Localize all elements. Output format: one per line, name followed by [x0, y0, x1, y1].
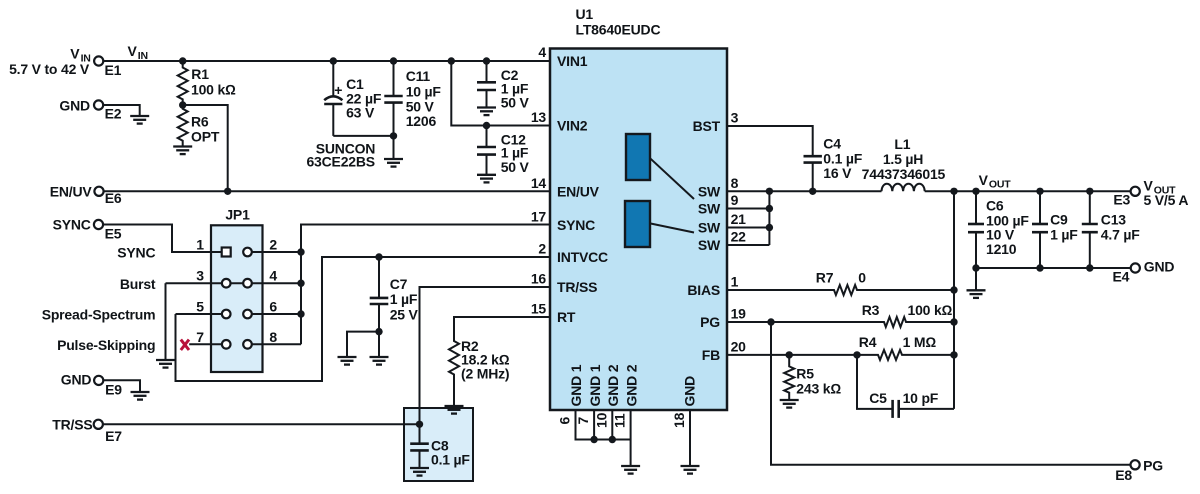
junction dot R4/column: [950, 351, 957, 358]
junction dot FB/R5: [786, 351, 793, 358]
svg-text:9: 9: [731, 192, 739, 208]
svg-text:0.1 µF: 0.1 µF: [823, 151, 862, 167]
svg-text:16: 16: [531, 271, 547, 287]
svg-text:BST: BST: [693, 118, 721, 134]
resistor R5 243k vertical: [784, 355, 841, 400]
svg-text:FB: FB: [702, 347, 720, 363]
svg-text:C4: C4: [823, 135, 841, 151]
junction dot C6 bottom rail: [972, 264, 979, 271]
ground below C8: [410, 468, 429, 476]
svg-text:GND: GND: [59, 98, 90, 114]
U1 internal switch block bottom: [625, 201, 694, 247]
svg-text:RT: RT: [557, 309, 576, 325]
svg-text:100 kΩ: 100 kΩ: [908, 302, 953, 318]
svg-text:SYNC: SYNC: [117, 245, 155, 261]
svg-text:VIN2: VIN2: [557, 118, 588, 134]
svg-text:GND 2: GND 2: [623, 364, 639, 406]
svg-text:5.7 V to 42 V: 5.7 V to 42 V: [9, 61, 90, 77]
svg-text:U1: U1: [576, 6, 594, 22]
wire Spread-Spectrum pin5 to INTVCC U1 pin 2: [176, 257, 551, 381]
U1 bottom pin names GND1 GND1 GND2 GND2 GND rotated: [568, 364, 697, 406]
svg-text:7: 7: [575, 417, 591, 425]
capacitor C11 10uF 50V 1206: [384, 61, 441, 159]
svg-text:SW: SW: [698, 183, 721, 199]
svg-text:10: 10: [593, 412, 609, 428]
svg-text:18: 18: [671, 412, 687, 428]
svg-text:E8: E8: [1115, 467, 1132, 483]
U1 right pin numbers: [731, 110, 747, 355]
svg-text:2: 2: [538, 241, 546, 257]
wire U1 pin 18 GND: [689, 410, 691, 466]
JP1 pin 5: [176, 310, 231, 319]
svg-text:1210: 1210: [986, 241, 1017, 257]
svg-text:L1: L1: [894, 136, 910, 152]
wire E9 to ground: [103, 380, 140, 392]
svg-text:1: 1: [196, 237, 204, 253]
no-connect X mark: [181, 340, 189, 350]
junction dot R3/column: [950, 318, 957, 325]
svg-text:EN/UV: EN/UV: [50, 183, 93, 199]
svg-text:0.1 µF: 0.1 µF: [431, 451, 470, 467]
svg-text:JP1: JP1: [225, 207, 250, 223]
svg-text:50 V: 50 V: [501, 159, 530, 175]
svg-text:SYNC: SYNC: [53, 216, 91, 232]
junction dot bus row2: [297, 280, 304, 287]
svg-text:R5: R5: [796, 366, 814, 382]
junction dot VIN/R1: [179, 57, 186, 64]
svg-text:C7: C7: [390, 276, 408, 292]
svg-text:E7: E7: [105, 428, 122, 444]
svg-text:1.5 µH: 1.5 µH: [883, 151, 923, 167]
svg-text:OUT: OUT: [989, 179, 1011, 191]
svg-text:10 µF: 10 µF: [406, 83, 442, 99]
terminal E3 VOUT: [1113, 178, 1188, 209]
svg-text:VIN1: VIN1: [557, 53, 588, 69]
wire output ground rail to E4: [976, 267, 1131, 269]
ground below R6: [173, 147, 192, 155]
svg-text:3: 3: [731, 110, 739, 126]
junction dot FB/R4/C5: [853, 351, 860, 358]
svg-text:1: 1: [731, 274, 739, 290]
junction dot pin10: [609, 436, 616, 443]
svg-text:C6: C6: [986, 198, 1004, 214]
svg-text:LT8640EUDC: LT8640EUDC: [576, 22, 661, 38]
capacitor C6 100uF 10V 1210: [968, 191, 1029, 290]
svg-text:TR/SS: TR/SS: [557, 279, 597, 295]
ground at E9: [131, 392, 150, 400]
svg-text:16 V: 16 V: [823, 165, 852, 181]
resistor R4 1M on FB: [727, 334, 954, 360]
inductor L1 1.5uH 74437346015: [862, 136, 946, 191]
svg-text:10 pF: 10 pF: [903, 390, 939, 406]
svg-text:1 MΩ: 1 MΩ: [903, 334, 937, 350]
junction dot C11 top: [390, 57, 397, 64]
wire C1 bottom to C11 bottom: [333, 135, 393, 137]
svg-text:PG: PG: [1143, 457, 1163, 473]
junction dot TR/SS C8: [416, 421, 423, 428]
connector JP1 body: [211, 207, 263, 373]
junction dot C12: [483, 122, 490, 129]
svg-text:C13: C13: [1101, 212, 1126, 228]
wire TR/SS: E7 to C8 node to U1 pin 16: [103, 287, 550, 424]
svg-text:17: 17: [531, 209, 547, 225]
junction dot C13 top: [1086, 188, 1093, 195]
ground below Burst: [156, 360, 175, 368]
svg-text:6: 6: [557, 417, 573, 425]
ground below R5: [780, 400, 799, 408]
U1 bottom pin numbers 6 7 10 11 18 rotated: [557, 412, 688, 428]
wire VIN to U1 pin 13 VIN2: [451, 61, 550, 126]
svg-text:E5: E5: [105, 226, 122, 242]
wire SW bus vertical: [768, 191, 770, 245]
svg-text:GND: GND: [1144, 259, 1175, 275]
JP1 row labels: [42, 245, 156, 353]
U1 right pin names: [687, 118, 721, 363]
ground below GND1/GND2 pins: [621, 466, 640, 474]
terminal E4 GND: [1113, 259, 1175, 285]
svg-text:Pulse-Skipping: Pulse-Skipping: [57, 337, 155, 353]
svg-text:14: 14: [531, 175, 547, 191]
U1 bottom ground pins 6 7 10 11: [576, 410, 631, 466]
svg-text:1 µF: 1 µF: [390, 291, 418, 307]
svg-text:SW: SW: [698, 201, 721, 217]
svg-text:Burst: Burst: [120, 276, 156, 292]
wire C7 bottom to left ground: [347, 332, 379, 357]
svg-text:50 V: 50 V: [501, 94, 530, 110]
capacitor C7 1uF 25V: [370, 257, 419, 332]
svg-text:22: 22: [731, 229, 747, 245]
svg-text:SYNC: SYNC: [557, 217, 595, 233]
JP1 pin 6: [243, 310, 301, 319]
junction dot R1/R6/EN: [179, 101, 186, 108]
capacitor C12 1uF 50V: [477, 126, 530, 175]
svg-text:1206: 1206: [406, 113, 437, 129]
svg-text:63CE22BS: 63CE22BS: [306, 154, 374, 170]
svg-text:R4: R4: [859, 334, 877, 350]
ground below R2: [445, 406, 464, 414]
svg-text:20: 20: [731, 339, 747, 355]
svg-text:243 kΩ: 243 kΩ: [796, 381, 841, 397]
junction dot C2: [483, 57, 490, 64]
svg-text:E4: E4: [1113, 269, 1130, 285]
JP1 pin 1 square: [222, 248, 231, 257]
junction dot C4/SW: [809, 188, 816, 195]
wire PG to E8: [771, 322, 1131, 465]
resistor R6 OPT vertical: [178, 105, 220, 147]
resistor R2 18.2k vertical on RT: [449, 317, 550, 406]
IC U1 body LT8640EUDC: [550, 6, 727, 410]
svg-text:GND 1: GND 1: [568, 364, 584, 406]
svg-text:100 kΩ: 100 kΩ: [191, 82, 236, 98]
svg-text:R7: R7: [816, 270, 834, 286]
node VOUT label: [979, 172, 1012, 191]
svg-text:V: V: [128, 43, 138, 59]
U1 internal switch block top: [626, 134, 694, 199]
svg-text:5: 5: [196, 299, 204, 315]
svg-text:E1: E1: [105, 62, 122, 78]
terminal E8 PG: [1115, 457, 1163, 483]
wire BST to C4: [727, 126, 813, 156]
svg-text:4.7 µF: 4.7 µF: [1101, 227, 1140, 243]
svg-text:E2: E2: [105, 106, 122, 122]
junction dot SW bus top: [766, 188, 773, 195]
svg-text:7: 7: [196, 329, 204, 345]
capacitor C5 10pF horizontal: [857, 355, 954, 418]
junction dot R7/column: [950, 286, 957, 293]
svg-text:50 V: 50 V: [406, 98, 435, 114]
svg-text:EN/UV: EN/UV: [557, 183, 600, 199]
U1 left pin numbers: [531, 44, 547, 316]
svg-text:GND 1: GND 1: [587, 364, 603, 406]
svg-text:C11: C11: [406, 68, 431, 84]
capacitor C2 1uF 50V: [477, 61, 530, 110]
junction dot bus row3: [297, 310, 304, 317]
U1 left pin names: [557, 53, 608, 325]
node VIN label on wire: [128, 43, 148, 62]
junction dot C7 top INTVCC: [375, 253, 382, 260]
capacitor C1 22uF 63V polarized: [324, 61, 382, 136]
resistor R1 100 kOhm vertical: [178, 61, 236, 105]
svg-text:5 V/5 A: 5 V/5 A: [1144, 192, 1189, 208]
svg-text:13: 13: [531, 109, 547, 125]
ground at E2: [130, 116, 149, 124]
svg-text:21: 21: [731, 211, 747, 227]
svg-text:8: 8: [731, 175, 739, 191]
junction dot EN/UV: [224, 188, 231, 195]
junction dot VIN2 branch: [448, 57, 455, 64]
JP1 pin 3: [166, 279, 252, 288]
JP1 pin 4: [243, 279, 301, 288]
wire SW pin 9: [727, 208, 769, 210]
svg-text:E6: E6: [105, 190, 122, 206]
ground below C2: [477, 108, 496, 116]
junction dot C1: [330, 57, 337, 64]
svg-text:INTVCC: INTVCC: [557, 249, 608, 265]
resistor R3 100k PG pullup: [727, 302, 954, 327]
JP1 pin numbers: [196, 237, 277, 345]
junction dot bus row1: [297, 248, 304, 255]
junction dot C1/C11 bottom: [390, 132, 397, 139]
resistor R7 0 on BIAS: [727, 270, 954, 296]
svg-text:GND: GND: [61, 371, 92, 387]
wire SW pin 8 to L1: [727, 190, 882, 192]
junction dot pin7: [590, 436, 597, 443]
capacitor C4 0.1uF 16V: [804, 135, 863, 191]
ground left of C7: [338, 357, 357, 365]
capacitor C13 4.7uF: [1082, 191, 1140, 268]
wire EN/UV: E6 to U1 pin 14: [104, 190, 550, 192]
junction dot feedback column top: [950, 188, 957, 195]
terminal E6 EN/UV: [50, 183, 122, 206]
svg-text:SW: SW: [698, 237, 721, 253]
svg-text:R3: R3: [862, 302, 880, 318]
svg-text:+: +: [334, 82, 342, 98]
wire E2 to ground: [103, 105, 140, 116]
svg-text:15: 15: [531, 301, 547, 317]
junction dot C9 bottom: [1036, 264, 1043, 271]
module box around C8: [404, 408, 473, 481]
svg-text:PG: PG: [700, 314, 720, 330]
wire L1 to E3 VOUT: [925, 190, 1131, 192]
svg-text:BIAS: BIAS: [687, 282, 720, 298]
svg-text:V: V: [70, 46, 80, 62]
ground below C7: [370, 357, 389, 365]
junction dot C7 bottom: [375, 328, 382, 335]
svg-text:C5: C5: [869, 390, 887, 406]
terminal E5 SYNC: [53, 216, 122, 241]
svg-text:3: 3: [196, 268, 204, 284]
junction dot C9 top: [1036, 188, 1043, 195]
junction dot SW bus 9: [766, 205, 773, 212]
svg-text:R1: R1: [191, 66, 209, 82]
svg-text:2: 2: [269, 237, 277, 253]
junction dot C6 top: [972, 188, 979, 195]
terminal E9 GND: [61, 371, 122, 397]
svg-text:0: 0: [858, 270, 866, 286]
wire VIN: E1 to U1 pin 4 VIN1: [103, 60, 550, 62]
svg-text:GND: GND: [682, 376, 698, 407]
svg-text:25 V: 25 V: [390, 307, 419, 323]
svg-text:63 V: 63 V: [346, 105, 375, 121]
wire SW pin 21: [727, 227, 769, 229]
wire JP1 right bus to U1 pin 17 SYNC: [301, 225, 550, 345]
svg-text:19: 19: [731, 306, 747, 322]
svg-text:4: 4: [538, 44, 546, 60]
wire R1/R6 node to EN/UV line: [183, 105, 228, 191]
wire Burst pin3 to ground: [165, 283, 167, 360]
wire C7 bottom down: [378, 332, 380, 357]
ground below pin 18: [681, 466, 700, 474]
svg-text:E9: E9: [105, 382, 122, 398]
svg-text:1 µF: 1 µF: [1050, 227, 1078, 243]
wire SW pin 22: [727, 244, 769, 246]
terminal E7 TR/SS: [52, 417, 122, 445]
svg-text:V: V: [979, 172, 989, 188]
svg-text:C9: C9: [1050, 212, 1068, 228]
svg-text:11: 11: [612, 413, 628, 428]
svg-text:4: 4: [269, 268, 277, 284]
svg-text:8: 8: [269, 329, 277, 345]
ground below C12: [477, 175, 496, 183]
capacitor C9 1uF: [1032, 191, 1078, 268]
svg-text:GND 2: GND 2: [605, 364, 621, 406]
JP1 pin 2: [243, 248, 301, 257]
svg-text:TR/SS: TR/SS: [52, 417, 92, 433]
JP1 pin 7: [189, 340, 230, 349]
wire SYNC: E5 to JP1 pin 1: [103, 225, 222, 253]
ground below C6: [967, 290, 986, 298]
terminal E1 VIN: [9, 46, 122, 79]
svg-text:SW: SW: [698, 220, 721, 236]
svg-text:74437346015: 74437346015: [862, 166, 946, 182]
junction dot SW bus 21: [766, 224, 773, 231]
svg-text:6: 6: [269, 299, 277, 315]
wire feedback column vertical: [953, 191, 955, 409]
svg-text:Spread-Spectrum: Spread-Spectrum: [42, 307, 156, 323]
junction dot C13 bottom: [1086, 264, 1093, 271]
junction dot PG/E8 branch: [767, 318, 774, 325]
svg-text:OPT: OPT: [191, 129, 220, 145]
svg-text:E3: E3: [1113, 192, 1130, 208]
terminal E2 GND: [59, 98, 121, 122]
capacitor C8 0.1uF: [410, 424, 470, 468]
label SUNCON 63CE22BS: [306, 140, 375, 169]
svg-text:(2 MHz): (2 MHz): [461, 365, 509, 381]
svg-text:R6: R6: [191, 114, 209, 130]
ground below C11: [384, 159, 403, 167]
JP1 pin 8: [243, 340, 301, 349]
